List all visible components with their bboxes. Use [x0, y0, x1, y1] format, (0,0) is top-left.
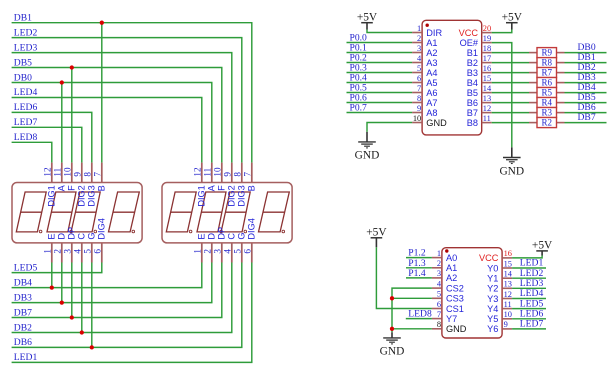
svg-text:1: 1 [43, 249, 53, 254]
svg-text:LED8: LED8 [408, 309, 432, 320]
wire net LED2 (top) [12, 38, 242, 163]
svg-text:F: F [67, 185, 77, 191]
wire net DB6 branch to display DS1 [91, 263, 93, 348]
wire U1 B3 to R7 [492, 72, 529, 74]
svg-text:1: 1 [193, 249, 203, 254]
svg-text:+5V: +5V [502, 11, 523, 23]
svg-text:6: 6 [243, 249, 253, 254]
junction DB5 at display DS1 [70, 65, 74, 69]
svg-text:DIG4: DIG4 [97, 218, 107, 239]
svg-text:DB1: DB1 [14, 13, 32, 24]
DS1 digit 4 outline [109, 192, 140, 233]
DS2 top pin numbers 12 11 10 9 8 7 [193, 167, 253, 177]
junction DB2 at display DS1 [80, 330, 84, 334]
U2 right pin names VCC Y0-Y6 [479, 253, 499, 334]
svg-text:DB4: DB4 [14, 277, 32, 288]
svg-text:GND: GND [446, 324, 467, 334]
svg-text:DIG1: DIG1 [197, 185, 207, 206]
U1 right pin numbers 20-11 [483, 24, 492, 123]
svg-text:B1: B1 [467, 48, 478, 58]
svg-text:DIG2: DIG2 [227, 185, 237, 206]
svg-text:A1: A1 [446, 263, 457, 273]
svg-text:G: G [237, 232, 247, 239]
svg-text:4: 4 [223, 249, 233, 254]
wire U1 B4 to R6 [492, 82, 529, 84]
wire net DB0 branch to display DS1 [61, 83, 63, 163]
svg-text:+5V: +5V [357, 11, 378, 23]
wire R9 to DB0 [565, 52, 607, 54]
svg-text:R4: R4 [541, 98, 552, 108]
svg-text:Y5: Y5 [487, 314, 498, 324]
wire net P0.2 [347, 62, 413, 64]
wire net LED7 [512, 328, 546, 330]
resistor R4 [529, 98, 565, 108]
wire net DB4 branch to display DS1 [51, 263, 53, 288]
svg-text:15: 15 [504, 259, 512, 268]
svg-text:10: 10 [504, 310, 512, 319]
wire net DB0 (top) [12, 83, 212, 163]
wire +5V to U2 VCC [512, 256, 542, 258]
junction GND pin on ground rail [390, 327, 394, 331]
svg-text:2: 2 [417, 34, 421, 43]
svg-text:9: 9 [417, 104, 421, 113]
svg-text:LED7: LED7 [14, 117, 38, 128]
svg-text:9: 9 [73, 172, 83, 177]
svg-text:3: 3 [213, 249, 223, 254]
+5V power symbol at U1 pin 1 (DIR) [357, 11, 378, 29]
svg-text:16: 16 [483, 64, 491, 73]
svg-text:DIG2: DIG2 [77, 185, 87, 206]
svg-text:5: 5 [83, 249, 93, 254]
svg-text:8: 8 [233, 172, 243, 177]
wire net DB4 (bottom) [12, 263, 202, 288]
svg-text:15: 15 [483, 74, 491, 83]
resistor R5 [529, 88, 565, 98]
svg-text:13: 13 [504, 280, 512, 289]
junction DB7 at display DS1 [70, 315, 74, 319]
svg-text:A5: A5 [426, 78, 437, 88]
svg-text:VCC: VCC [479, 253, 499, 263]
svg-text:Y0: Y0 [487, 263, 498, 273]
U1 left pin numbers 1-10 [413, 24, 422, 123]
wire net DB6 (bottom) [12, 263, 242, 348]
svg-text:DP: DP [217, 227, 227, 240]
U1 left pin names DIR A1-A8 GND [426, 28, 447, 128]
svg-text:LED5: LED5 [14, 262, 38, 273]
svg-text:C: C [227, 233, 237, 240]
svg-text:DIG1: DIG1 [47, 185, 57, 206]
svg-text:A6: A6 [426, 88, 437, 98]
svg-text:10: 10 [63, 167, 73, 177]
svg-text:C: C [77, 233, 87, 240]
svg-text:R6: R6 [541, 78, 552, 88]
svg-text:LED2: LED2 [14, 27, 38, 38]
wire R7 to DB2 [565, 72, 607, 74]
wire net DB2 (bottom) [12, 263, 232, 333]
wire U1 B1 to R9 [492, 52, 529, 54]
svg-text:A: A [207, 184, 217, 191]
+5V power symbol at U2 VCC [532, 240, 553, 256]
svg-text:R2: R2 [541, 118, 552, 128]
wire U2 CS3 to ground rail [392, 297, 432, 299]
svg-text:9: 9 [223, 172, 233, 177]
svg-text:12: 12 [504, 290, 512, 299]
7-segment 4-digit display DS2 body [162, 183, 292, 243]
svg-text:3: 3 [437, 269, 441, 278]
svg-text:12: 12 [43, 167, 53, 177]
ground symbol below U2 [383, 332, 401, 344]
svg-text:DIR: DIR [426, 28, 442, 38]
wire net DB1 (top) [12, 23, 252, 163]
DS1 digit 1 outline [16, 192, 46, 233]
svg-text:8: 8 [437, 320, 441, 329]
DS1 top pin numbers 12 11 10 9 8 7 [43, 167, 103, 177]
svg-text:GND: GND [380, 346, 405, 358]
svg-text:LED3: LED3 [14, 42, 38, 53]
svg-text:A7: A7 [426, 98, 437, 108]
U2 left pin numbers 1-8 [437, 249, 442, 329]
wire U1 B6 to R4 [492, 102, 529, 104]
wire net LED5 (bottom) [12, 263, 102, 273]
wire net P0.7 [347, 112, 413, 114]
svg-text:B8: B8 [467, 118, 478, 128]
wire R8 to DB1 [565, 62, 607, 64]
wire net P0.3 [347, 72, 413, 74]
svg-text:11: 11 [504, 300, 512, 309]
svg-text:4: 4 [73, 249, 83, 254]
svg-text:P1.4: P1.4 [408, 268, 426, 279]
svg-text:+5V: +5V [366, 226, 387, 238]
resistor R8 [529, 58, 565, 68]
wire U1 B5 to R5 [492, 92, 529, 94]
svg-text:E: E [47, 233, 57, 239]
svg-text:10: 10 [413, 114, 421, 123]
svg-text:R7: R7 [541, 68, 552, 78]
wire net P0.0 [347, 42, 413, 44]
svg-text:7: 7 [437, 310, 441, 319]
wire U1 GND pin to ground [367, 123, 412, 132]
junction CS3 on ground rail [390, 296, 394, 300]
junction DB6 at display DS1 [90, 345, 94, 349]
wire net P0.5 [347, 92, 413, 94]
svg-text:LED7: LED7 [520, 319, 544, 330]
wire U2 GND pin to ground rail [392, 328, 432, 330]
wire net LED8 (top) [12, 142, 52, 162]
svg-text:14: 14 [483, 84, 492, 93]
svg-text:LED4: LED4 [14, 87, 38, 98]
wire net P1.4 [406, 277, 432, 279]
svg-text:+5V: +5V [532, 240, 553, 252]
DS1 digit 3 outline [71, 192, 100, 233]
U2 pin stubs [432, 258, 512, 329]
svg-text:DB7: DB7 [14, 307, 32, 318]
svg-text:F: F [217, 185, 227, 191]
svg-text:B: B [97, 185, 107, 191]
resistor R7 [529, 68, 565, 78]
wire net LED1 [512, 267, 546, 269]
wire net P1.2 [406, 257, 432, 259]
svg-text:B7: B7 [467, 108, 478, 118]
svg-text:6: 6 [93, 249, 103, 254]
svg-text:DB0: DB0 [14, 72, 32, 83]
svg-text:8: 8 [83, 172, 93, 177]
svg-text:2: 2 [53, 249, 63, 254]
svg-text:R3: R3 [541, 108, 552, 118]
svg-text:B3: B3 [467, 68, 478, 78]
wire net LED8 [406, 318, 432, 320]
svg-text:G: G [87, 232, 97, 239]
svg-text:LED8: LED8 [14, 132, 38, 143]
svg-text:7: 7 [93, 172, 103, 177]
svg-text:DP: DP [67, 227, 77, 240]
DS2 digit 4 outline [259, 192, 290, 233]
svg-text:2: 2 [437, 259, 441, 268]
7-segment 4-digit display DS1 body [12, 183, 142, 243]
svg-text:7: 7 [417, 84, 421, 93]
svg-text:A8: A8 [426, 108, 437, 118]
svg-text:R8: R8 [541, 58, 552, 68]
svg-text:Y4: Y4 [487, 304, 498, 314]
svg-text:DIG4: DIG4 [247, 218, 257, 239]
wire U2 CS2 down to ground rail [392, 288, 432, 332]
svg-text:GND: GND [426, 118, 447, 128]
svg-text:DB6: DB6 [14, 337, 32, 348]
wire U1 B2 to R8 [492, 62, 529, 64]
svg-text:19: 19 [483, 34, 491, 43]
svg-text:5: 5 [233, 249, 243, 254]
svg-text:3: 3 [63, 249, 73, 254]
svg-text:GND: GND [355, 150, 380, 162]
svg-text:3: 3 [417, 44, 421, 53]
svg-text:CS2: CS2 [446, 283, 464, 293]
svg-text:12: 12 [193, 167, 203, 177]
svg-text:Y2: Y2 [487, 284, 498, 294]
svg-text:A0: A0 [446, 253, 457, 263]
svg-text:11: 11 [483, 114, 491, 123]
wire net LED6 (top) [12, 112, 92, 162]
wire R4 to DB5 [565, 102, 607, 104]
svg-text:Y3: Y3 [487, 294, 498, 304]
svg-text:D: D [207, 233, 217, 240]
wire net LED5 [512, 308, 546, 310]
wire net LED7 (top) [12, 127, 82, 162]
DS1 bottom pin names E D DP C G DIG4 [47, 218, 107, 239]
DS2 digit 3 outline [221, 192, 250, 233]
wire R6 to DB3 [565, 82, 607, 84]
wire net DB3 (bottom) [12, 263, 212, 303]
wire net LED4 (top) [12, 98, 202, 163]
svg-text:B2: B2 [467, 58, 478, 68]
junction DB0 at display DS1 [60, 80, 64, 84]
junction DB3 at display DS1 [60, 300, 64, 304]
wire net LED1 (bottom) [12, 263, 252, 363]
svg-text:DB7: DB7 [578, 112, 596, 123]
svg-text:D: D [57, 233, 67, 240]
svg-text:VCC: VCC [459, 28, 479, 38]
wire net DB5 branch to display DS1 [71, 68, 73, 163]
svg-text:OE#: OE# [460, 38, 479, 48]
wire net P0.1 [347, 52, 413, 54]
svg-text:B6: B6 [467, 98, 478, 108]
svg-text:12: 12 [483, 104, 491, 113]
svg-text:B: B [247, 185, 257, 191]
svg-text:6: 6 [437, 300, 441, 309]
U2 right pin numbers 16-9 [504, 249, 513, 329]
svg-text:14: 14 [504, 270, 513, 279]
U2 left pin names A0 A1 A2 CS2 CS3 CS1 Y7 GND [446, 253, 467, 334]
wire +5V to U1 DIR [367, 30, 412, 33]
svg-text:DB3: DB3 [14, 292, 32, 303]
junction DB4 at display DS1 [50, 285, 54, 289]
wire U1 B7 to R3 [492, 112, 529, 114]
svg-text:CS1: CS1 [446, 304, 464, 314]
svg-text:8: 8 [417, 94, 421, 103]
svg-text:LED6: LED6 [14, 102, 38, 113]
IC U2 3-to-8 decoder body [442, 248, 502, 338]
ground symbol at U1 pin 19 (OE#) [503, 147, 521, 163]
wire +5V to U1 VCC [492, 30, 512, 33]
svg-text:11: 11 [203, 167, 213, 176]
svg-text:A4: A4 [426, 68, 437, 78]
svg-text:LED1: LED1 [14, 352, 38, 363]
svg-text:DB2: DB2 [14, 322, 32, 333]
svg-text:CS3: CS3 [446, 294, 464, 304]
wire net LED2 [512, 277, 546, 279]
svg-text:A: A [57, 184, 67, 191]
resistor R6 [529, 78, 565, 88]
svg-text:10: 10 [213, 167, 223, 177]
U2 origin marker [445, 249, 448, 252]
DS1 bottom pin numbers 1 2 3 4 5 6 [43, 249, 103, 254]
svg-text:1: 1 [437, 249, 441, 258]
wire net DB1 branch to display DS1 [101, 23, 103, 163]
svg-text:20: 20 [483, 24, 491, 33]
wire net P1.3 [406, 267, 432, 269]
U1 origin marker [426, 24, 429, 27]
DS2 digit 1 outline [166, 192, 196, 233]
svg-text:A2: A2 [446, 273, 457, 283]
DS2 top pin names DIG1 A F DIG2 DIG3 B [197, 184, 257, 206]
DS1 pin stubs [52, 163, 102, 263]
wire +5V to U2 CS1 [376, 247, 432, 308]
wire net LED6 [512, 318, 546, 320]
svg-text:DIG3: DIG3 [87, 185, 97, 206]
svg-text:Y1: Y1 [487, 274, 498, 284]
svg-text:Y6: Y6 [487, 324, 498, 334]
svg-text:GND: GND [499, 165, 524, 177]
svg-text:B4: B4 [467, 78, 478, 88]
svg-text:9: 9 [504, 320, 508, 329]
svg-text:DB5: DB5 [14, 57, 32, 68]
wire net DB7 (bottom) [12, 263, 222, 318]
wire net DB3 branch to display DS1 [61, 263, 63, 303]
svg-text:7: 7 [243, 172, 253, 177]
svg-text:E: E [197, 233, 207, 239]
svg-text:18: 18 [483, 44, 491, 53]
svg-text:DIG3: DIG3 [237, 185, 247, 206]
resistor R3 [529, 108, 565, 118]
wire U1 OE# to ground [492, 43, 512, 148]
+5V power symbol at U1 pin 20 (VCC) [502, 11, 523, 29]
resistor R2 [529, 118, 565, 128]
DS2 bottom pin numbers 1 2 3 4 5 6 [193, 249, 253, 254]
DS2 pin stubs [202, 163, 252, 263]
svg-text:P0.7: P0.7 [350, 103, 368, 114]
wire net LED3 [512, 287, 546, 289]
DS2 digit 2 outline [197, 192, 226, 233]
svg-text:17: 17 [483, 54, 491, 63]
svg-text:2: 2 [203, 249, 213, 254]
U1 pin stubs [412, 33, 492, 123]
wire R2 to DB7 [565, 122, 607, 124]
wire R3 to DB6 [565, 112, 607, 114]
svg-text:1: 1 [417, 24, 421, 33]
svg-text:5: 5 [437, 290, 441, 299]
wire net LED3 (top) [12, 53, 232, 163]
wire U1 B8 to R2 [492, 122, 529, 124]
svg-text:16: 16 [504, 249, 512, 258]
svg-text:11: 11 [53, 167, 63, 176]
svg-text:A2: A2 [426, 48, 437, 58]
IC U1 74HC245 octal buffer body [422, 20, 482, 135]
+5V power symbol at U2 CS1 [366, 226, 387, 247]
wire net DB5 (top) [12, 68, 222, 163]
wire net P0.4 [347, 82, 413, 84]
ground symbol at U1 pin 10 [358, 132, 376, 148]
wire net DB2 branch to display DS1 [81, 263, 83, 333]
U1 right pin names VCC OE# B1-B8 [459, 28, 479, 128]
svg-text:13: 13 [483, 94, 491, 103]
DS1 top pin names DIG1 A F DIG2 DIG3 B [47, 184, 107, 206]
wire net LED4 [512, 298, 546, 300]
resistor R9 [529, 48, 565, 58]
DS1 digit 2 outline [47, 192, 76, 233]
svg-text:A3: A3 [426, 58, 437, 68]
wire net P0.6 [347, 102, 413, 104]
svg-text:Y7: Y7 [446, 314, 457, 324]
wire net DB7 branch to display DS1 [71, 263, 73, 318]
junction DB1 at display DS1 [100, 21, 104, 25]
wire R5 to DB4 [565, 92, 607, 94]
svg-text:5: 5 [417, 64, 421, 73]
svg-text:R9: R9 [541, 48, 552, 58]
svg-text:R5: R5 [541, 88, 552, 98]
svg-text:A1: A1 [426, 38, 437, 48]
svg-text:6: 6 [417, 74, 421, 83]
svg-text:B5: B5 [467, 88, 478, 98]
DS2 bottom pin names E D DP C G DIG4 [197, 218, 257, 239]
